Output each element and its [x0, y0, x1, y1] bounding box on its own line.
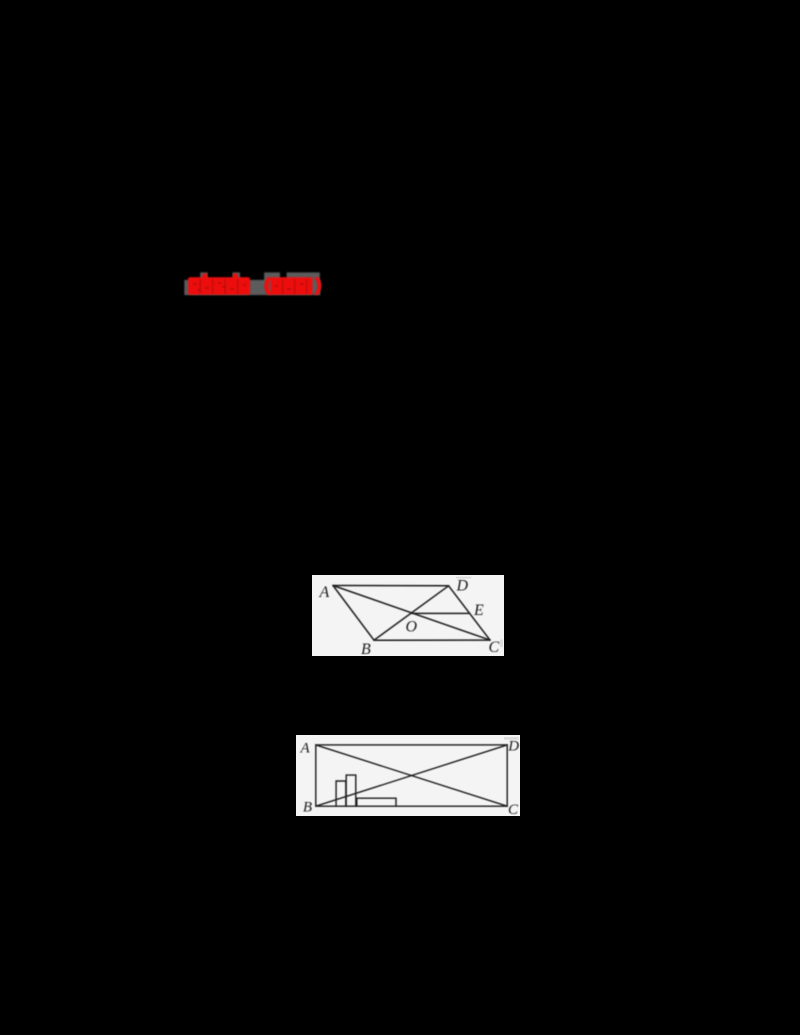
scan artifact dash above D [504, 737, 519, 740]
scan artifact dash right of C [500, 640, 503, 648]
svg-text:A: A [300, 740, 311, 756]
diagonal AC [333, 586, 490, 641]
figure 2 white background [296, 735, 520, 816]
side AD [333, 585, 449, 587]
figure 1 white background [312, 575, 504, 656]
small bar 1 [336, 781, 346, 806]
svg-text:B: B [361, 641, 371, 656]
svg-text:D: D [507, 739, 519, 755]
svg-text:D: D [456, 578, 469, 595]
figure 1: parallelogram ABCD with diagonals and segment OE [312, 575, 504, 656]
svg-text:B: B [303, 800, 312, 816]
wide low bar [357, 798, 396, 806]
red title text blobs (squeezed CJK characters) [188, 274, 321, 296]
red chapter title banner with gray highlight boxes [175, 262, 335, 306]
diagonal BD [374, 586, 449, 640]
side BC [374, 639, 490, 641]
svg-text:O: O [406, 619, 418, 636]
diagonal BD [316, 745, 507, 806]
diagonal AC [316, 745, 507, 806]
svg-text:E: E [473, 602, 484, 619]
small bar 2 [346, 775, 356, 806]
side DC [449, 586, 490, 640]
gray highlight band behind title [184, 272, 320, 295]
svg-text:C: C [508, 802, 519, 816]
side AB [333, 586, 374, 641]
segment OE [412, 612, 470, 614]
dark slits giving character texture [200, 279, 308, 294]
figure 2: rectangle ABCD with diagonals and bar shapes [296, 735, 520, 816]
svg-text:A: A [319, 584, 330, 601]
rectangle ABCD [316, 745, 507, 806]
svg-text:C: C [489, 639, 500, 656]
scan artifact dash above D [456, 577, 471, 579]
